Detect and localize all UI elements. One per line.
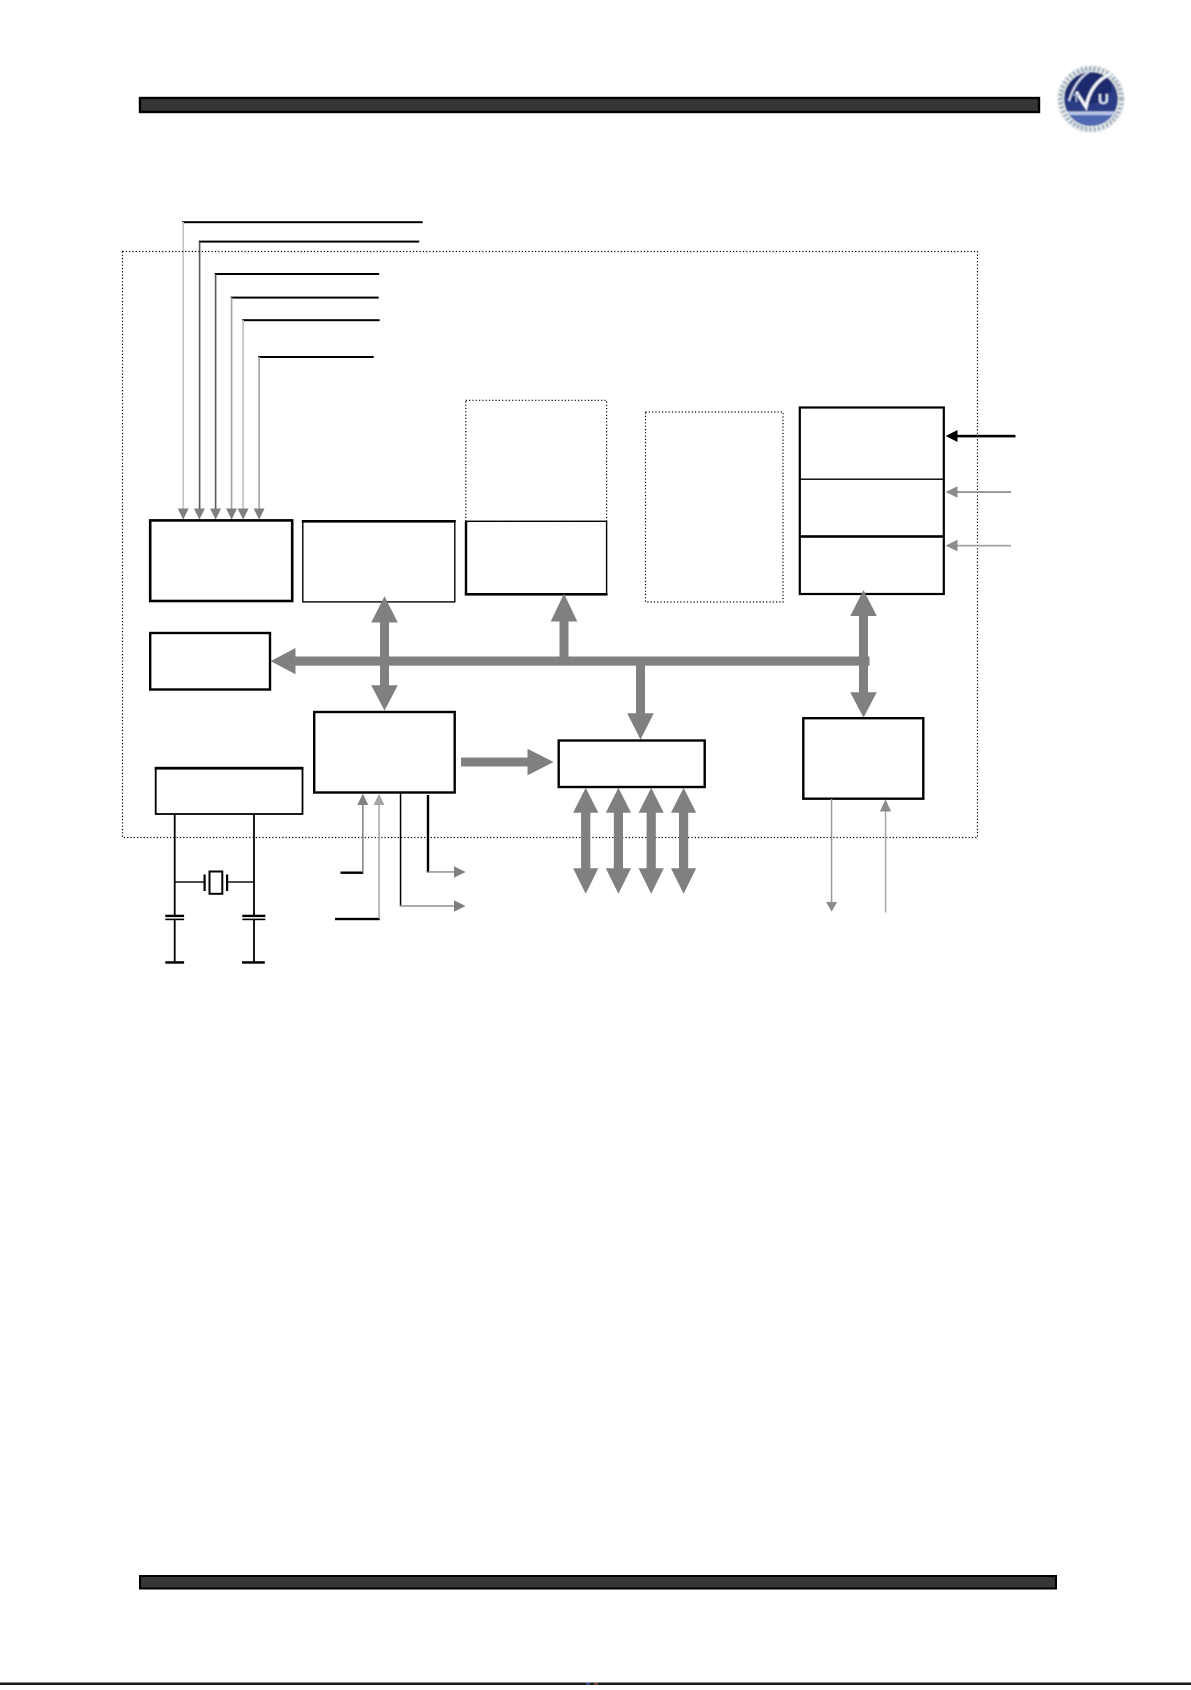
crystal right lead [253,814,255,915]
dotted block B [646,412,784,602]
box4 feedback arrow A [341,794,369,874]
crystal X1 [175,872,254,894]
header rule bar [140,98,1039,112]
logo TVU emblem [1057,65,1125,133]
dotted extension above box3 [466,400,607,521]
block: right lower box [803,718,923,799]
block: wide I/O box [559,741,705,788]
block: 3-section memory box [800,408,944,595]
svg-text:T: T [1073,93,1080,105]
bus double arrow to memory/right box [850,590,877,718]
I/O double arrow 3 [639,788,664,894]
grey input arrow to section 3 [946,540,1011,552]
crystal left lead [174,814,176,915]
tiny page-number mark on bottom edge [586,1683,590,1685]
big dotted module enclosure [123,252,978,838]
signal line 6 [254,356,374,520]
right box up signal [880,799,891,912]
I/O double arrow 2 [606,788,631,894]
svg-text:U: U [1098,91,1109,108]
block: oscillator box [155,767,304,814]
bus drop connector to wide box [627,665,654,740]
block: box3 [465,521,608,595]
ground left [165,961,184,964]
I/O double arrow 4 [671,788,696,894]
signal line 5 [238,319,380,519]
right box down signal [826,799,837,912]
bus up arrow to box3 [551,594,578,657]
box4 output line 2 [427,795,466,878]
block: box2 [302,520,456,602]
footer rule bar [140,1576,1056,1589]
block: small left box [150,633,270,690]
signal line 3 [210,273,379,520]
bus double arrow to box2/box4 [371,596,398,710]
block: interrupt controller (box1) [150,520,292,601]
signal line 2 [194,241,419,520]
capacitor C1 [165,915,184,920]
grey input arrow to section 2 [946,486,1011,498]
box4 feedback arrow B [335,794,385,920]
system bus horizontal [271,648,870,674]
ground right [242,961,265,964]
thick arrow box4 to wide box [461,749,554,776]
I/O double arrow 1 [573,788,598,894]
black input arrow to section 1 [946,430,1016,442]
signal line 1 [178,221,423,519]
page bottom edge line [0,1683,1191,1686]
block: box4 CPU [314,712,455,793]
box4 output line 1 [400,793,466,912]
capacitor C2 [242,915,265,920]
signal line 4 [226,297,379,520]
